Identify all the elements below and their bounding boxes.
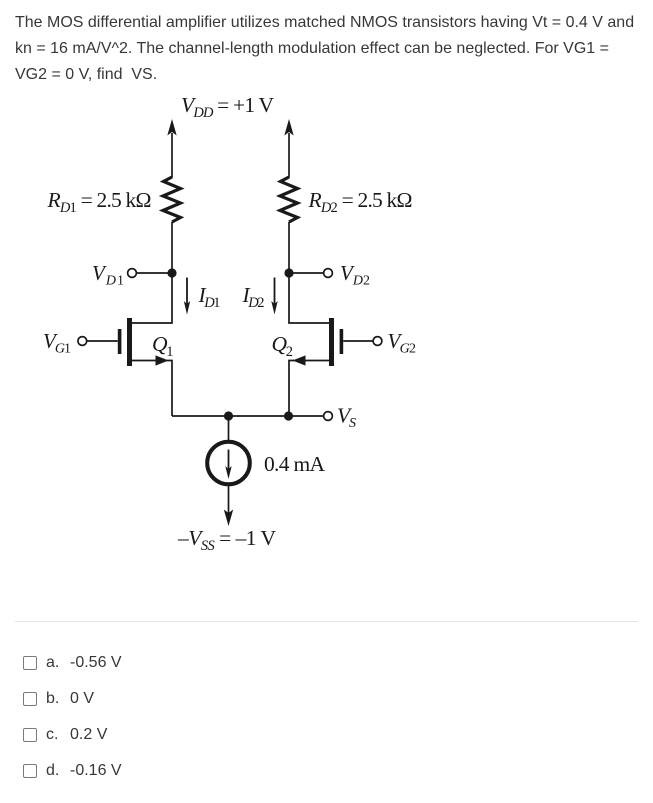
Q1 drain wire — [131, 273, 172, 323]
svg-text:0.4 mA: 0.4 mA — [264, 452, 325, 476]
terminal VS open circle — [324, 412, 333, 421]
option c — [23, 726, 107, 744]
node S junction dot right — [284, 411, 293, 420]
resistor RD2 — [280, 177, 298, 222]
wire RD2 to node D2 — [288, 222, 290, 273]
node S junction dot left — [224, 411, 233, 420]
option a — [23, 654, 122, 672]
wire node D1 to VD1 terminal — [137, 272, 173, 274]
svg-text:ID2: ID2 — [242, 283, 265, 311]
transistor Q1 — [87, 273, 172, 416]
svg-text:VG2: VG2 — [388, 329, 417, 357]
Q2 gate bar — [340, 329, 344, 354]
svg-text:–VSS = –1 V: –VSS = –1 V — [177, 526, 276, 554]
current arrow ID2 — [271, 278, 277, 315]
Q2 source wire — [289, 361, 330, 417]
svg-text:VDD = +1 V: VDD = +1 V — [181, 93, 274, 121]
wire VDD to RD1 with up arrow — [167, 119, 176, 178]
svg-text:Q2: Q2 — [272, 332, 294, 360]
terminal VG2 open circle — [373, 337, 382, 346]
current source I 0.4 mA — [207, 442, 250, 485]
divider — [15, 621, 638, 622]
Q1 channel bar — [127, 318, 132, 366]
resistor RD1 — [163, 177, 181, 222]
terminal VD1 open circle — [128, 269, 137, 278]
current arrow ID1 — [184, 278, 190, 315]
Q1 source wire — [131, 361, 172, 417]
Q2 channel bar — [329, 318, 334, 366]
svg-text:VD2: VD2 — [340, 261, 370, 289]
wire current source to -VSS with down arrow — [224, 485, 233, 526]
Q1 gate bar — [118, 329, 122, 354]
Q1 source arrow — [156, 355, 169, 365]
option b — [23, 690, 94, 708]
option d — [23, 762, 122, 780]
Q2 drain wire — [289, 273, 330, 323]
Q1 gate wire — [87, 340, 118, 342]
terminal VD2 open circle — [324, 269, 333, 278]
wire node S to current source — [228, 416, 230, 442]
transistor Q2 — [289, 273, 373, 416]
terminal VG1 open circle — [78, 337, 87, 346]
svg-text:RD1 = 2.5 kΩ: RD1 = 2.5 kΩ — [47, 188, 152, 216]
wire source rail — [172, 415, 324, 417]
svg-text:RD2 = 2.5 kΩ: RD2 = 2.5 kΩ — [308, 188, 413, 216]
node D1 junction dot — [167, 268, 176, 277]
wire node D2 to VD2 terminal — [289, 272, 325, 274]
svg-text:Q1: Q1 — [152, 332, 174, 360]
svg-text:ID1: ID1 — [198, 283, 221, 311]
Q2 gate wire — [343, 340, 373, 342]
wire RD1 to node D1 — [171, 222, 173, 273]
svg-text:VD1: VD1 — [92, 261, 124, 289]
Q2 source arrow — [293, 355, 306, 365]
wire VDD to RD2 with up arrow — [284, 119, 293, 178]
svg-text:VS: VS — [337, 404, 356, 432]
svg-text:VG1: VG1 — [43, 329, 71, 357]
node D2 junction dot — [284, 268, 293, 277]
